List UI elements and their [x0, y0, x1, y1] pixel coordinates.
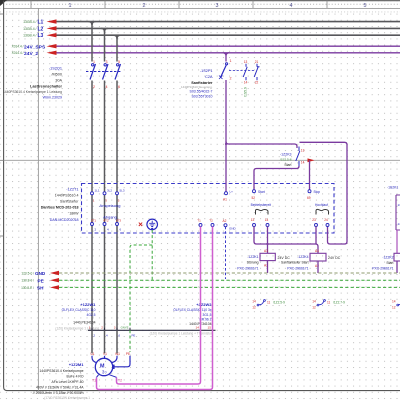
aux contact 13/14 — [243, 60, 247, 85]
bus L2 — [57, 27, 400, 29]
svg-text:5: 5 — [364, 3, 367, 9]
svg-text:PXC-2966171: PXC-2966171 — [237, 267, 258, 271]
softstarter T1 dashed device box — [82, 184, 335, 234]
svg-text:13GB.4 /: 13GB.4 / — [23, 20, 36, 24]
wire A2 to GND dashed — [225, 227, 227, 279]
svg-text:24V_SPS: 24V_SPS — [24, 44, 46, 50]
svg-text:69: 69 — [307, 196, 311, 200]
contact cross-ref K4 — [312, 299, 345, 309]
softstarter input terminal 3/L2 — [103, 189, 112, 203]
terminal 1 — [89, 326, 96, 338]
terminal 2 — [101, 326, 108, 338]
svg-text:Wöm.23029: Wöm.23029 — [43, 96, 62, 100]
svg-text:14: 14 — [301, 161, 305, 165]
svg-text:X014.4 /: X014.4 / — [12, 51, 24, 55]
svg-text:12: 12 — [312, 305, 316, 309]
svg-text:13: 13 — [251, 218, 255, 222]
svg-text:PE: PE — [126, 352, 130, 356]
svg-text:6T3: 6T3 — [116, 219, 122, 223]
motor wire PE — [112, 352, 130, 369]
svg-text:21: 21 — [255, 60, 259, 64]
svg-text:24V DC: 24V DC — [328, 256, 341, 260]
node SH label — [21, 285, 59, 290]
svg-text:14: 14 — [312, 299, 316, 303]
node GND label — [21, 271, 59, 276]
page frame row ticks — [0, 13, 4, 15]
motor label block — [33, 362, 90, 400]
svg-text:S03.55/4022-7: S03.55/4022-7 — [190, 90, 213, 94]
svg-text:PE: PE — [132, 334, 136, 338]
svg-text:Hochlauf: Hochlauf — [315, 203, 328, 207]
svg-text:120.5-0 /: 120.5-0 / — [21, 272, 34, 276]
softstarter control terminal Stop — [307, 190, 320, 200]
svg-text:Start: Start — [386, 261, 393, 265]
svg-text:/1S2.5-8: /1S2.5-8 — [280, 158, 292, 162]
svg-text:PXC-2966171: PXC-2966171 — [287, 267, 308, 271]
svg-text:13GB.4 /: 13GB.4 / — [23, 34, 36, 38]
coil K4 label block — [281, 255, 309, 271]
page frame inner margin line — [37, 8, 39, 390]
node 24V_SPS label — [12, 44, 57, 50]
motor wire U1 — [90, 330, 97, 363]
breaker Q1 label block — [3, 67, 63, 100]
svg-text:12: 12 — [392, 305, 396, 309]
svg-text:AFa Level LKHPF-60: AFa Level LKHPF-60 — [51, 380, 83, 384]
P1 mechanical link to aux contacts — [229, 70, 254, 72]
contact cross-ref K1 — [252, 299, 285, 309]
softstarter thermistor terminals — [197, 219, 214, 227]
svg-text:GND: GND — [229, 227, 237, 231]
svg-text:-1Z2K2: -1Z2K2 — [382, 256, 393, 260]
cable W2 label block — [173, 302, 212, 326]
svg-text:+1Z2M1: +1Z2M1 — [69, 362, 85, 367]
svg-text:T2: T2 — [118, 379, 122, 383]
contact cross-ref K2 partial — [392, 299, 400, 309]
svg-text:24V DC: 24V DC — [278, 256, 291, 260]
svg-text:1: 1 — [89, 326, 91, 330]
svg-text:GND: GND — [35, 271, 46, 276]
softstarter output terminal 4/T2 — [103, 219, 109, 232]
svg-text:3L2: 3L2 — [107, 189, 112, 193]
motor thermistor stubs — [97, 375, 117, 378]
svg-text:/M500: /M500 — [51, 73, 62, 77]
svg-text:2: 2 — [101, 326, 103, 330]
svg-text:3: 3 — [216, 3, 219, 9]
svg-text:T1: T1 — [92, 379, 96, 383]
svg-text:14: 14 — [252, 299, 256, 303]
circuit breaker Q1 pole 2 — [103, 60, 109, 89]
svg-text:(1Z0) Kreiselpumpe 1 Leistung: (1Z0) Kreiselpumpe 1 Leistung + Thermist… — [150, 332, 213, 336]
wire coil K4 A2 to GND — [317, 261, 319, 273]
svg-text:3: 3 — [114, 326, 116, 330]
relay contact K3 — [296, 147, 305, 167]
svg-text:4T2: 4T2 — [103, 219, 109, 223]
svg-text:4: 4 — [290, 3, 293, 9]
svg-text:/1Z2.5-9: /1Z2.5-9 — [273, 300, 285, 304]
PE terminal circle — [147, 219, 158, 230]
wire contact 13 drop — [315, 226, 317, 243]
svg-text:1440PS3610.4 Kreiselpumpe: 1440PS3610.4 Kreiselpumpe — [39, 369, 83, 373]
svg-text:4G2,5: 4G2,5 — [87, 313, 96, 317]
svg-text:130.8-0 /: 130.8-0 / — [21, 279, 34, 283]
bus SH — [59, 286, 400, 288]
bus L3 — [57, 34, 400, 36]
wire S2K1 to coil K2 — [396, 230, 398, 253]
coil K1 label block — [237, 255, 258, 271]
wire feed to right column — [300, 142, 348, 244]
wire 24V control drop x=226 — [225, 80, 227, 192]
bus GND — [59, 272, 400, 274]
svg-text:A2: A2 — [223, 219, 227, 223]
softstarter label block — [41, 188, 80, 223]
svg-text:Anspeisung: Anspeisung — [100, 203, 121, 208]
page frame row divider — [4, 159, 400, 161]
svg-text:-1Z2K4: -1Z2K4 — [297, 255, 308, 259]
svg-text:-1Z2T1: -1Z2T1 — [66, 188, 78, 192]
node 24V_2 label — [12, 51, 57, 57]
wire coil K2 A2 to GND — [396, 261, 398, 273]
svg-text:2T1: 2T1 — [91, 219, 97, 223]
svg-text:L3: L3 — [38, 33, 44, 39]
svg-text:-1S2P1: -1S2P1 — [200, 69, 213, 73]
svg-text:T1: T1 — [197, 219, 201, 223]
svg-text:// 2950U/min // 3,1Bar // 90.0: // 2950U/min // 3,1Bar // 90.000l/h — [33, 391, 84, 395]
svg-text:Sanftstarter: Sanftstarter — [60, 200, 79, 204]
svg-text:S03.55T3010: S03.55T3010 — [191, 95, 212, 99]
junction dot — [225, 143, 227, 145]
svg-text:Start: Start — [258, 190, 265, 194]
wire coil K1 A2 to GND — [267, 261, 269, 273]
svg-text:L2: L2 — [38, 26, 44, 32]
svg-text:1: 1 — [230, 59, 232, 63]
svg-text:52: 52 — [252, 196, 256, 200]
svg-text:13: 13 — [244, 60, 248, 64]
cable W1 label block — [55, 302, 99, 331]
svg-text:PE: PE — [38, 278, 44, 283]
svg-text:L+: L+ — [230, 190, 234, 194]
svg-text:1L1: 1L1 — [95, 189, 100, 193]
relay coil K4 — [310, 249, 341, 268]
svg-text:/1S5.9: /1S5.9 — [244, 87, 248, 97]
junction dot — [266, 243, 268, 245]
svg-text:14: 14 — [196, 326, 200, 330]
bus 24V_2 — [57, 52, 400, 54]
softstarter input terminal 5/L3 — [116, 189, 125, 203]
bus PE — [59, 279, 400, 281]
terminal 14 — [196, 326, 201, 333]
svg-text:1440PS3610 Steuerspg.: 1440PS3610 Steuerspg. — [181, 85, 213, 89]
svg-text:14: 14 — [244, 81, 248, 85]
wire PE branch to motor — [130, 245, 152, 330]
svg-text:2: 2 — [93, 85, 95, 89]
svg-text:DAN.MCD202018: DAN.MCD202018 — [50, 218, 79, 222]
svg-text:Stop: Stop — [314, 190, 321, 194]
svg-text:2: 2 — [143, 3, 146, 9]
breaker Q1 mechanical link — [86, 71, 121, 73]
wire phase L2 drop — [101, 28, 108, 330]
svg-text:12: 12 — [252, 305, 256, 309]
svg-text:BuFe 4 RO: BuFe 4 RO — [67, 375, 84, 379]
svg-text:1440PS3610.4 Kreiselpumpe 1 Le: 1440PS3610.4 Kreiselpumpe 1 Leistung — [3, 90, 62, 94]
svg-text:Start: Start — [284, 163, 291, 167]
svg-text:C2A: C2A — [205, 75, 213, 79]
device box S2K1 partial — [387, 186, 400, 231]
wire branch at node 226,144 — [226, 142, 297, 149]
ruler column numbers — [69, 3, 367, 9]
svg-text:18kW: 18kW — [69, 212, 79, 216]
svg-text:30A: 30A — [55, 79, 62, 83]
wire Stop drop — [309, 160, 311, 189]
terminal PE — [121, 326, 136, 338]
softstarter control terminal A1 — [223, 190, 233, 202]
wire thermistor T1 pink — [97, 226, 213, 389]
svg-text:400V // 18,5kW // 50Hz // 31,4: 400V // 18,5kW // 50Hz // 31,4A — [36, 386, 84, 390]
svg-text:23: 23 — [312, 218, 316, 222]
circuit breaker Q1 pole 3 — [115, 60, 121, 89]
aux contact 21/22 — [254, 60, 259, 85]
svg-text:1440PS3610.4: 1440PS3610.4 — [55, 194, 79, 198]
softstarter relay contact Hochlauf — [312, 203, 329, 227]
svg-text:13GB.4 /: 13GB.4 / — [23, 27, 36, 31]
circuit breaker P1 — [219, 59, 232, 81]
softstarter terminal A2 — [223, 219, 237, 231]
svg-text:2: 2 — [230, 77, 232, 81]
svg-text:(1740.PS3610N Kreiselpumpe 1: (1740.PS3610N Kreiselpumpe 1 — [44, 396, 90, 400]
terminal 3 — [114, 326, 121, 338]
node L3 label — [23, 33, 56, 39]
wire PE below terminal — [129, 330, 131, 352]
breaker P1 label block — [181, 69, 213, 99]
svg-text:-1S2Q1: -1S2Q1 — [49, 67, 62, 71]
wire PE green dashed from PE circle — [151, 230, 153, 280]
svg-text:22: 22 — [255, 81, 259, 85]
bus L1 — [57, 21, 400, 23]
softstarter output terminal 2/T1 — [91, 219, 97, 232]
motor wire V1 — [103, 330, 107, 358]
relay coil K1 — [260, 249, 290, 268]
svg-text:A1: A1 — [315, 249, 319, 253]
wire K3 to Start terminal — [254, 166, 299, 190]
svg-text:1: 1 — [69, 3, 72, 9]
softstarter output terminal 6/T3 — [116, 219, 122, 232]
motor M1 — [95, 358, 112, 375]
svg-text:Danfoss MCD-202-018: Danfoss MCD-202-018 — [41, 206, 79, 210]
svg-text:/1Z2.7-9: /1Z2.7-9 — [333, 300, 345, 304]
svg-text:-1Z2K1: -1Z2K1 — [247, 255, 258, 259]
svg-text:ÖLFLEX CLASSIC 110 3x: ÖLFLEX CLASSIC 110 3x — [173, 308, 212, 312]
svg-text:GNYE: GNYE — [121, 326, 129, 330]
node PE label — [21, 278, 59, 283]
svg-text:1440.PE34104: 1440.PE34104 — [73, 321, 96, 325]
svg-text:Betriebsbereit: Betriebsbereit — [251, 203, 271, 207]
node L1 label — [23, 19, 56, 25]
svg-text:PXC-2966171: PXC-2966171 — [372, 267, 393, 271]
svg-text:T2: T2 — [209, 219, 213, 223]
svg-text:4: 4 — [106, 85, 108, 89]
contact K3 label block — [280, 153, 292, 168]
svg-text:ÖLFLEX CLASSIC 110: ÖLFLEX CLASSIC 110 — [62, 308, 96, 312]
svg-text:14: 14 — [392, 299, 396, 303]
svg-text:Störung: Störung — [247, 261, 259, 265]
svg-text:5L3: 5L3 — [120, 189, 125, 193]
wire relay output rail y=244 — [254, 226, 318, 253]
svg-text:15: 15 — [208, 326, 212, 330]
svg-text:X014.4 /: X014.4 / — [12, 45, 24, 49]
svg-text:-1S2K1: -1S2K1 — [387, 186, 398, 190]
no-connection cross — [139, 223, 142, 226]
svg-text:130.8-E /: 130.8-E / — [21, 286, 34, 290]
node L2 label — [23, 26, 56, 32]
terminal strip line — [88, 329, 216, 331]
terminal 15 — [208, 326, 213, 333]
coil K2 label block — [372, 256, 393, 271]
wire 24V_2 drop to P1 — [223, 53, 229, 62]
svg-text:A1: A1 — [264, 249, 268, 253]
softstarter control terminal Start — [252, 190, 265, 200]
svg-text:-1Z2K3: -1Z2K3 — [280, 153, 292, 157]
svg-text:11: 11 — [267, 300, 271, 304]
page frame corner mark — [0, 0, 7, 6]
svg-text:6: 6 — [118, 85, 120, 89]
relay coil K2 partial — [394, 253, 400, 261]
svg-text:Sanftanläufer Start: Sanftanläufer Start — [281, 261, 309, 265]
svg-text:3~: 3~ — [102, 369, 108, 374]
wire coil K1 feed — [267, 226, 269, 253]
svg-text:L1: L1 — [38, 20, 44, 26]
softstarter relay contact Betriebsbereit — [251, 203, 271, 227]
page frame top ruler — [0, 1, 400, 9]
svg-text:14: 14 — [265, 218, 269, 222]
circuit breaker Q1 pole 1 — [90, 60, 96, 89]
wire phase L3 drop — [114, 35, 121, 330]
svg-text:A1: A1 — [223, 198, 227, 202]
interruption arrow Stop — [308, 158, 315, 162]
wire thermistor T2 pink — [117, 226, 201, 384]
wire phase L1 drop — [89, 22, 96, 331]
svg-text:24V_2: 24V_2 — [24, 51, 38, 57]
motor wire W1 — [111, 330, 120, 363]
svg-text:13: 13 — [301, 149, 305, 153]
svg-text:24: 24 — [324, 218, 328, 222]
svg-text:Lasttrennschalter: Lasttrennschalter — [30, 85, 62, 89]
svg-text:11: 11 — [327, 300, 331, 304]
svg-text:+1Z2W2: +1Z2W2 — [196, 302, 212, 307]
svg-text:SH: SH — [37, 286, 44, 291]
bus 24V_SPS — [57, 45, 400, 47]
svg-text:+1Z2W1: +1Z2W1 — [80, 302, 96, 307]
softstarter input terminal 1/L1 — [91, 189, 100, 203]
